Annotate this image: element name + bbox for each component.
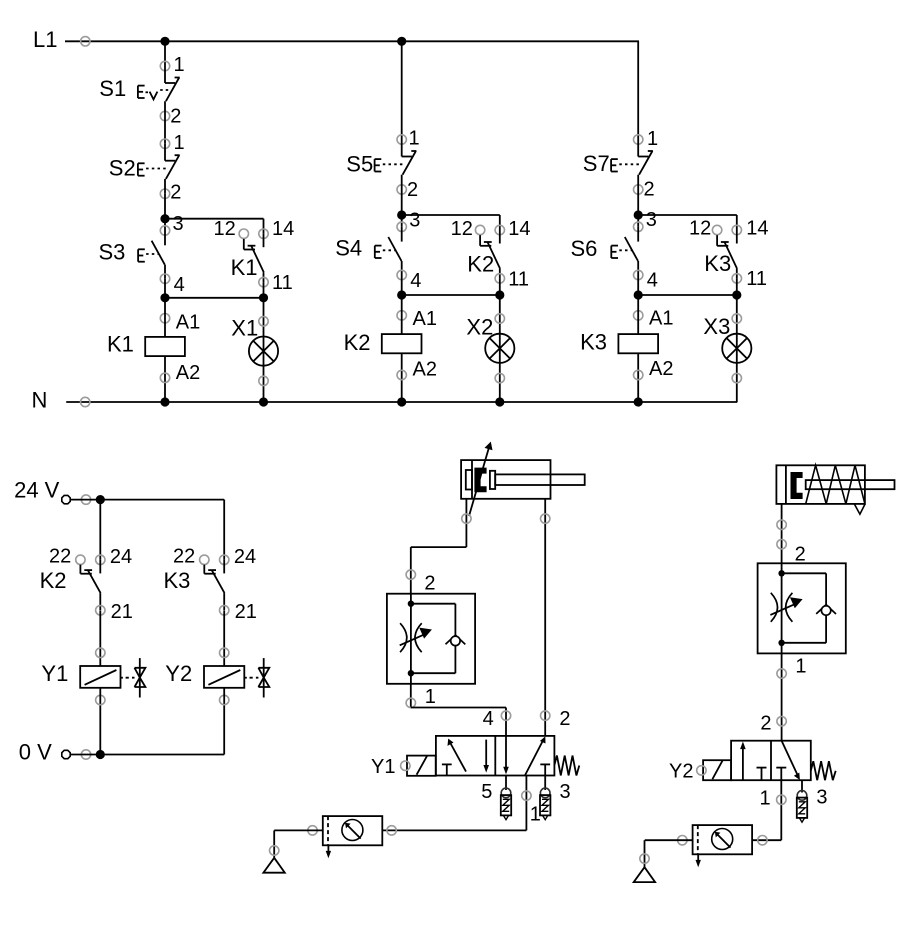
svg-text:14: 14 [746, 217, 768, 239]
svg-text:S4: S4 [335, 236, 362, 261]
svg-text:12: 12 [214, 218, 236, 240]
svg-text:A2: A2 [649, 358, 673, 380]
svg-text:Y2: Y2 [165, 661, 192, 686]
svg-text:K3: K3 [704, 251, 731, 276]
svg-text:X2: X2 [466, 314, 493, 339]
svg-text:A1: A1 [413, 308, 437, 330]
svg-text:A1: A1 [649, 308, 673, 330]
svg-text:K2: K2 [40, 568, 67, 593]
svg-text:2: 2 [559, 708, 570, 730]
svg-text:S5: S5 [346, 151, 373, 176]
svg-text:1: 1 [409, 128, 420, 150]
svg-text:S2: S2 [109, 156, 136, 181]
svg-text:2: 2 [407, 179, 418, 201]
svg-text:N: N [32, 388, 48, 413]
svg-text:11: 11 [746, 268, 767, 290]
svg-text:1: 1 [425, 686, 436, 708]
svg-text:3: 3 [816, 786, 827, 808]
svg-text:A2: A2 [176, 362, 200, 384]
svg-text:1: 1 [530, 804, 541, 826]
svg-text:1: 1 [760, 788, 771, 810]
svg-text:1: 1 [174, 54, 185, 76]
svg-text:Y1: Y1 [371, 756, 395, 778]
svg-text:1: 1 [174, 132, 185, 154]
svg-text:A2: A2 [413, 359, 437, 381]
svg-text:22: 22 [49, 546, 71, 568]
svg-text:X3: X3 [703, 314, 730, 339]
svg-text:14: 14 [272, 218, 294, 240]
svg-text:2: 2 [424, 573, 435, 595]
svg-text:1: 1 [647, 128, 658, 150]
svg-text:3: 3 [409, 210, 420, 232]
svg-text:22: 22 [173, 546, 195, 568]
svg-text:4: 4 [410, 270, 421, 292]
svg-text:4: 4 [174, 274, 185, 296]
svg-text:5: 5 [481, 781, 492, 803]
svg-text:4: 4 [483, 708, 494, 730]
svg-text:K1: K1 [107, 331, 134, 356]
svg-text:K3: K3 [580, 330, 607, 355]
svg-text:2: 2 [170, 106, 181, 128]
svg-text:S3: S3 [99, 239, 126, 264]
svg-text:11: 11 [508, 268, 529, 290]
svg-text:K2: K2 [467, 252, 494, 277]
svg-text:24: 24 [234, 546, 256, 568]
svg-text:21: 21 [111, 601, 133, 623]
svg-text:K2: K2 [344, 330, 371, 355]
svg-text:12: 12 [451, 218, 473, 240]
svg-text:21: 21 [235, 601, 257, 623]
svg-text:11: 11 [272, 272, 293, 294]
svg-text:S1: S1 [99, 76, 126, 101]
svg-text:24 V: 24 V [14, 478, 60, 503]
svg-text:K1: K1 [231, 255, 258, 280]
svg-text:12: 12 [689, 217, 711, 239]
svg-text:1: 1 [795, 656, 806, 678]
svg-text:S7: S7 [583, 151, 610, 176]
svg-text:2: 2 [644, 179, 655, 201]
svg-text:2: 2 [795, 543, 806, 565]
svg-text:2: 2 [760, 713, 771, 735]
svg-text:3: 3 [173, 213, 184, 235]
svg-text:K3: K3 [164, 568, 191, 593]
svg-text:2: 2 [170, 181, 181, 203]
svg-text:A1: A1 [176, 312, 200, 334]
svg-text:L1: L1 [33, 27, 57, 52]
svg-text:X1: X1 [231, 316, 258, 341]
svg-text:Y1: Y1 [41, 661, 68, 686]
svg-text:3: 3 [560, 781, 571, 803]
svg-text:24: 24 [110, 546, 132, 568]
svg-text:S6: S6 [571, 236, 598, 261]
svg-text:4: 4 [647, 270, 658, 292]
svg-text:Y2: Y2 [669, 761, 693, 783]
svg-text:0 V: 0 V [19, 740, 52, 765]
svg-text:3: 3 [646, 209, 657, 231]
svg-text:14: 14 [508, 218, 530, 240]
